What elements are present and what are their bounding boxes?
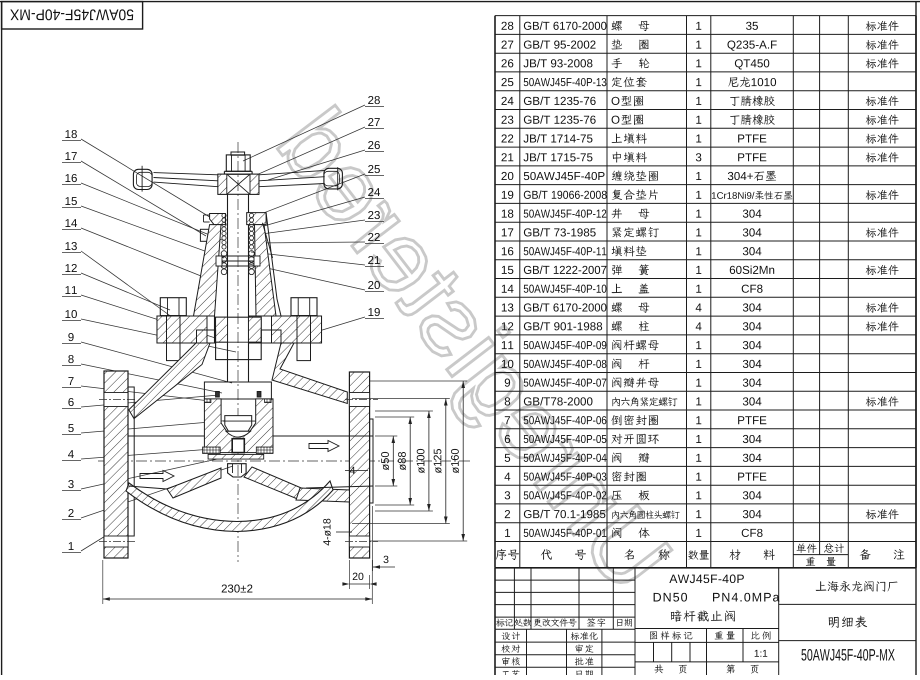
dimension 230±2 overall length	[222, 584, 253, 592]
stem nut (item 11)	[216, 317, 262, 359]
body left flange (item 1)	[104, 371, 128, 558]
left flange raised face	[128, 387, 134, 536]
item balloon 22	[368, 233, 380, 241]
item balloon 23	[368, 211, 380, 219]
BOM row 21: JB/T 1715-75	[501, 153, 513, 161]
handwheel hub (item 27) with cross section	[218, 174, 259, 194]
dimension ø88	[409, 417, 411, 505]
part number leader lines (right side items 19-28)	[243, 105, 384, 338]
BOM row 28: GB/T 6170-2000	[501, 22, 513, 30]
item balloon 14	[65, 219, 77, 227]
BOM row 23: GB/T 1235-76	[501, 116, 513, 124]
BOM row 7: 50AWJ45F-40P-06	[505, 416, 510, 424]
gland flange (item 18)	[210, 214, 226, 225]
dimension ø160	[462, 381, 464, 541]
flow direction arrow left	[140, 471, 174, 482]
item balloon 3	[68, 480, 73, 488]
pipe interior boundary lines	[128, 435, 204, 437]
split ring (item 6)	[216, 392, 220, 398]
BOM row 20: 50AWJ45F-40P	[501, 172, 513, 180]
BOM row 17: GB/T 73-1985	[502, 228, 513, 236]
BOM row 6: 50AWJ45F-40P-05	[505, 435, 510, 443]
right yoke arm wall	[272, 343, 347, 404]
spring (item 15)	[221, 251, 254, 275]
right pipe bottom wall	[296, 488, 349, 502]
part number leader lines (left side items 1-18)	[62, 139, 245, 553]
BOM row 26: JB/T 93-2008	[501, 59, 513, 67]
o-rings (items 23/24)	[204, 399, 211, 403]
bonnet neck right wall	[255, 225, 277, 316]
bonnet flange slab	[157, 316, 215, 343]
seat seal rings (item 4)	[203, 447, 221, 454]
item balloon 18	[65, 130, 76, 138]
item balloon 11	[65, 286, 76, 294]
disc (item 5)	[225, 416, 252, 432]
BOM row 2: GB/T 70.1-1985	[505, 510, 510, 518]
BOM row 12: GB/T 901-1988	[502, 322, 513, 330]
handwheel spokes (item 26)	[154, 170, 325, 186]
item balloon 27	[368, 118, 380, 126]
disc bolt (item 2)	[228, 464, 247, 477]
BOM row 1: 50AWJ45F-40P-01	[505, 529, 510, 537]
item balloon 15	[65, 197, 76, 205]
valve stem (item 10)	[227, 194, 229, 382]
body bowl bottom	[126, 481, 333, 532]
pipe horizontal centerline	[98, 460, 470, 462]
BOM row 27: GB/T 95-2002	[501, 41, 513, 49]
BOM row 16: 50AWJ45F-40P-11	[502, 247, 514, 255]
BOM row 24: GB/T 1235-76	[501, 97, 513, 105]
BOM header row	[496, 549, 519, 560]
item balloon 7	[68, 377, 73, 385]
title box top-left with rotated part number	[2, 2, 143, 29]
BOM row 11: 50AWJ45F-40P-09	[502, 341, 513, 349]
item balloon 26	[368, 141, 380, 149]
item balloon 9	[68, 333, 73, 341]
BOM row 9: 50AWJ45F-40P-07	[505, 379, 510, 387]
positioning sleeve (item 25)	[216, 255, 260, 257]
BOM row 22: JB/T 1714-75	[501, 134, 513, 142]
BOM row 5: 50AWJ45F-40P-04	[505, 454, 510, 462]
handwheel left rim section	[133, 169, 152, 189]
item balloon 28	[368, 96, 380, 104]
BOM row 19: GB/T 19066-2008	[502, 191, 514, 199]
dimension ø50	[392, 436, 394, 486]
right flange raised face	[370, 419, 373, 503]
BOM row 13: GB/T 6170-2000	[502, 303, 514, 311]
dimension ø125	[445, 399, 447, 524]
flow direction arrow right	[309, 441, 339, 452]
BOM row 25: 50AWJ45F-40P-13	[501, 78, 513, 86]
item balloon 17	[65, 152, 76, 160]
dimension ø100	[428, 411, 430, 511]
bonnet outer profile right (bracket)	[266, 213, 281, 316]
item balloon 12	[65, 264, 76, 272]
stud bolt right + nut	[291, 298, 317, 316]
bracket wing plates	[197, 330, 216, 343]
BOM row 3: 50AWJ45F-40P-02	[505, 491, 510, 499]
dimension extension lines	[352, 381, 467, 541]
dimension 4 (raised face)	[350, 467, 355, 474]
left yoke arm wall	[129, 343, 210, 419]
BOM row 4: 50AWJ45F-40P-03	[504, 473, 510, 481]
upper cover plate (item 14 area)	[204, 382, 271, 399]
handwheel nut (item 28)	[231, 152, 245, 155]
item balloon 10	[65, 310, 76, 318]
disc stem guide	[232, 439, 244, 453]
disc holder block hatched	[204, 399, 273, 453]
body right flange	[349, 372, 369, 558]
item balloon 13	[65, 242, 76, 250]
BOM row 14: 50AWJ45F-40P-10	[502, 285, 514, 293]
item balloon 24	[368, 188, 380, 196]
title block	[495, 568, 916, 675]
stud bolt left (item 12) + nut (item 13)	[160, 298, 186, 316]
set screw (item 17)	[200, 229, 212, 241]
handwheel right rim section	[324, 168, 343, 189]
item balloon 4	[68, 450, 74, 458]
BOM row 10: 50AWJ45F-40P-08	[502, 360, 514, 368]
item balloon 16	[65, 174, 76, 182]
bonnet neck (item 14) left wall	[194, 225, 222, 316]
item balloon 8	[68, 355, 73, 363]
BOM row 8: GB/T78-2000	[505, 397, 510, 405]
lower seat bridge walls	[167, 468, 221, 498]
item balloon 25	[368, 165, 380, 173]
item balloon 5	[68, 424, 73, 432]
item balloon 21	[368, 256, 380, 264]
BOM row 15: GB/T 1222-2007	[502, 266, 514, 274]
dimension 4-ø18 bolt holes	[323, 519, 331, 546]
dimension 20	[353, 573, 364, 580]
item balloon 20	[368, 281, 380, 289]
valve vertical centerline	[237, 142, 239, 562]
watermark "Unregistered" (mirrored outline)	[261, 105, 675, 605]
BOM parts list table grid	[495, 16, 916, 568]
item balloon 6	[68, 398, 73, 406]
item balloon 2	[68, 509, 73, 517]
item balloon 1	[69, 542, 74, 550]
item balloon 19	[368, 308, 379, 316]
seat clamp plate (item 3)	[208, 454, 264, 459]
drawing frame border	[0, 1, 920, 3]
packing rings stack (items 21/22)	[222, 213, 254, 249]
BOM row 18: 50AWJ45F-40P-12	[502, 210, 514, 218]
dimension 3	[384, 556, 389, 563]
